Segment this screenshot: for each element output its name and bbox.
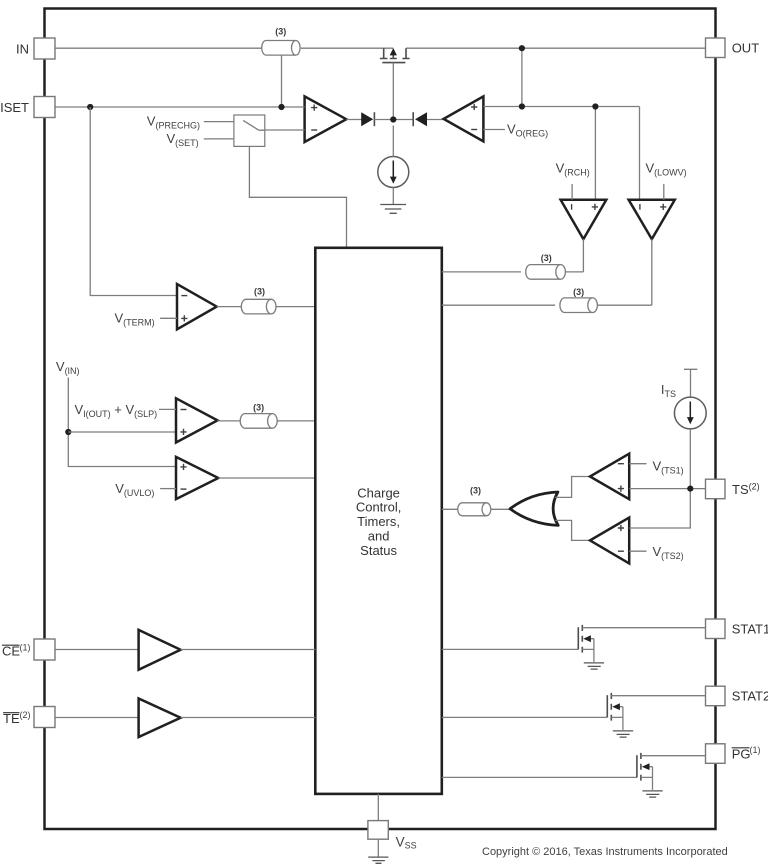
current source I(TS) — [674, 369, 706, 429]
wire TS2 - input stub — [629, 550, 646, 552]
comparator V(LOWV) — [629, 200, 675, 239]
wire SLP output to delay — [218, 420, 241, 422]
wire node to I1 — [392, 126, 394, 157]
wire ISET branch down to V(TERM) comparator - input — [90, 107, 177, 296]
svg-text:STAT1: STAT1 — [732, 621, 768, 636]
op-amp U1 — [305, 96, 347, 142]
wire TS2 + input bend to TS node — [629, 489, 690, 528]
wire V(LOWV) label stub to + input — [663, 184, 665, 200]
wire OR delay to OR gate — [491, 508, 510, 510]
wire block to Q3 gate — [442, 776, 637, 778]
delay element (3) on IN line — [262, 41, 300, 56]
wire block to Q1 gate — [442, 648, 579, 650]
buffer B2 (TE) — [139, 699, 181, 738]
junction dot top rail — [519, 45, 525, 51]
wire U2 + input net to RCH/LOWV comparators — [483, 107, 639, 200]
ground below Q2 — [613, 731, 633, 737]
junction dot U2 line at x595.4 — [592, 103, 598, 109]
wire RCH output to delay and block — [442, 239, 584, 272]
comparator V(TS2) — [590, 518, 629, 564]
wire V(PRECHG) to switch box — [204, 121, 234, 123]
svg-text:Control,: Control, — [356, 500, 402, 515]
svg-text:PG: PG — [732, 746, 751, 761]
svg-text:IN: IN — [16, 42, 29, 57]
ground below Q3 — [642, 791, 662, 797]
svg-text:VSS: VSS — [396, 834, 417, 850]
pass transistor M1 (PMOS) — [380, 48, 410, 63]
svg-text:(3): (3) — [470, 485, 481, 495]
wire LOWV output to delay and block — [442, 239, 652, 305]
pin IN — [34, 38, 55, 59]
wire U1 output to diode D1 — [346, 119, 361, 121]
transistor Q3 (PG) — [637, 753, 706, 790]
wire switch box bottom to control block top — [249, 146, 346, 247]
svg-text:TE: TE — [3, 711, 20, 726]
svg-text:Status: Status — [360, 543, 397, 558]
wire D2 to U2 — [427, 119, 444, 121]
svg-text:V(SET): V(SET) — [167, 131, 199, 148]
svg-text:CE: CE — [2, 644, 20, 659]
svg-text:ISET: ISET — [0, 100, 29, 115]
wire VSS pin to ground — [377, 839, 379, 857]
junction dot V(IN) line — [65, 429, 71, 435]
svg-text:Timers,: Timers, — [357, 514, 400, 529]
wire V(IN) branch to SLP + input — [68, 431, 176, 433]
wire TE pin to buffer — [55, 717, 139, 719]
wire TE buffer to block — [181, 717, 316, 719]
svg-text:V(TERM): V(TERM) — [115, 310, 155, 327]
wire TS1 + input to TS pin — [629, 488, 705, 490]
pin CE — [34, 639, 55, 660]
wire block bottom to VSS pin — [377, 794, 379, 821]
svg-text:(3): (3) — [573, 287, 584, 297]
wire switch box output to U1 - input — [265, 129, 305, 131]
wire UVLO label to - input — [160, 488, 176, 490]
svg-text:(3): (3) — [541, 253, 552, 263]
svg-text:V(UVLO): V(UVLO) — [115, 481, 154, 498]
buffer B1 (CE) — [139, 630, 181, 670]
wire SLP delay to block — [277, 420, 315, 422]
wire V(TERM) label to + input — [160, 317, 177, 319]
ground below I1 — [380, 205, 406, 214]
wire OR top input to TS1 output — [555, 477, 590, 498]
wire ISET net — [55, 106, 305, 108]
wire block to OR delay — [442, 508, 463, 510]
svg-text:(3): (3) — [254, 287, 265, 297]
wire V(RCH) label stub to - input — [571, 184, 573, 200]
comparator V(SLP) — [176, 398, 218, 442]
wire SLP label to - input — [159, 408, 176, 410]
wire M1 gate down to diode node — [392, 63, 394, 120]
delay element (3) after V(TERM) — [241, 299, 276, 314]
wire CE buffer to block — [181, 649, 316, 651]
op-amp U2 — [444, 96, 484, 141]
pin TE — [34, 707, 55, 728]
svg-text:Charge: Charge — [357, 485, 400, 500]
pin OUT — [706, 38, 726, 58]
label CE(1) — [2, 643, 31, 659]
charge control block — [315, 248, 442, 794]
transistor Q1 (STAT1) — [578, 625, 705, 662]
svg-text:V(TS2): V(TS2) — [653, 544, 684, 561]
svg-text:V(PRECHG): V(PRECHG) — [147, 113, 200, 130]
pin STAT1 — [706, 619, 726, 639]
diode D1 — [361, 112, 374, 126]
label TE(2) — [3, 710, 31, 726]
wire OR bottom input to TS2 output — [555, 520, 590, 540]
wire I(TS) to TS node — [689, 429, 691, 488]
current source I1 — [378, 157, 409, 188]
pin VSS — [368, 821, 388, 840]
wire branch from top rail down to VO(REG) line — [521, 48, 523, 106]
wire I1 to ground — [392, 188, 394, 205]
switch box (precharge select) — [234, 115, 265, 146]
comparator V(TERM) — [177, 284, 217, 329]
junction dot U2 line at x521.9 — [519, 103, 525, 109]
node dot at M1 gate — [390, 116, 396, 122]
svg-text:V(RCH): V(RCH) — [556, 161, 590, 178]
svg-text:(1): (1) — [20, 643, 31, 653]
label PG(1) — [732, 745, 761, 761]
svg-text:TS(2): TS(2) — [732, 481, 760, 497]
delay element (3) after LOWV — [560, 298, 597, 313]
wire block to Q2 gate — [442, 716, 608, 718]
pin STAT2 — [706, 686, 726, 706]
delay element (3) after RCH — [526, 265, 566, 280]
pin TS — [706, 479, 726, 499]
wire V(IN) down to UVLO + input — [68, 378, 176, 467]
diode D2 — [413, 112, 427, 126]
wire D1 to D2 — [374, 119, 413, 121]
svg-text:STAT2: STAT2 — [732, 689, 768, 704]
comparator V(RCH) — [561, 200, 607, 239]
wire TS1 - input stub — [629, 463, 646, 465]
svg-text:V(LOWV): V(LOWV) — [646, 161, 687, 178]
junction dot TS node — [687, 486, 693, 492]
junction dot ISET at delay branch — [278, 104, 284, 110]
svg-text:(2): (2) — [20, 710, 31, 720]
svg-text:(3): (3) — [275, 27, 286, 37]
transistor Q2 (STAT2) — [607, 693, 705, 730]
OR gate — [510, 492, 558, 525]
comparator V(TS1) — [590, 454, 629, 500]
ground below VSS — [368, 857, 388, 863]
delay element (3) before OR gate — [458, 503, 491, 516]
pin PG — [706, 744, 726, 764]
delay element (3) after SLP — [240, 414, 277, 429]
wire U2 - input stub — [483, 129, 505, 131]
svg-text:OUT: OUT — [732, 41, 760, 56]
svg-text:(1): (1) — [750, 745, 761, 755]
wire V(TERM) output to delay — [217, 306, 242, 308]
svg-text:VO(REG): VO(REG) — [507, 122, 548, 139]
wire CE pin to buffer — [55, 649, 139, 651]
wire IN net top rail — [55, 47, 706, 49]
svg-text:V(TS1): V(TS1) — [653, 458, 684, 475]
svg-text:and: and — [368, 529, 390, 544]
svg-text:(3): (3) — [253, 402, 264, 412]
wire UVLO output to block — [218, 477, 315, 479]
svg-text:ITS: ITS — [661, 382, 676, 399]
pin ISET — [34, 97, 55, 118]
svg-text:Copyright © 2016, Texas Instru: Copyright © 2016, Texas Instruments Inco… — [482, 846, 728, 858]
junction dot ISET at x90.2 — [87, 104, 93, 110]
ground below Q1 — [584, 663, 604, 669]
svg-text:V(IN): V(IN) — [56, 359, 80, 376]
comparator V(UVLO) — [176, 457, 218, 499]
svg-text:VI(OUT) + V(SLP): VI(OUT) + V(SLP) — [75, 402, 158, 419]
wire V(SET) to switch box — [204, 138, 234, 140]
wire TERM delay to block — [276, 306, 315, 308]
wire from IN delay down to ISET line — [281, 56, 283, 108]
